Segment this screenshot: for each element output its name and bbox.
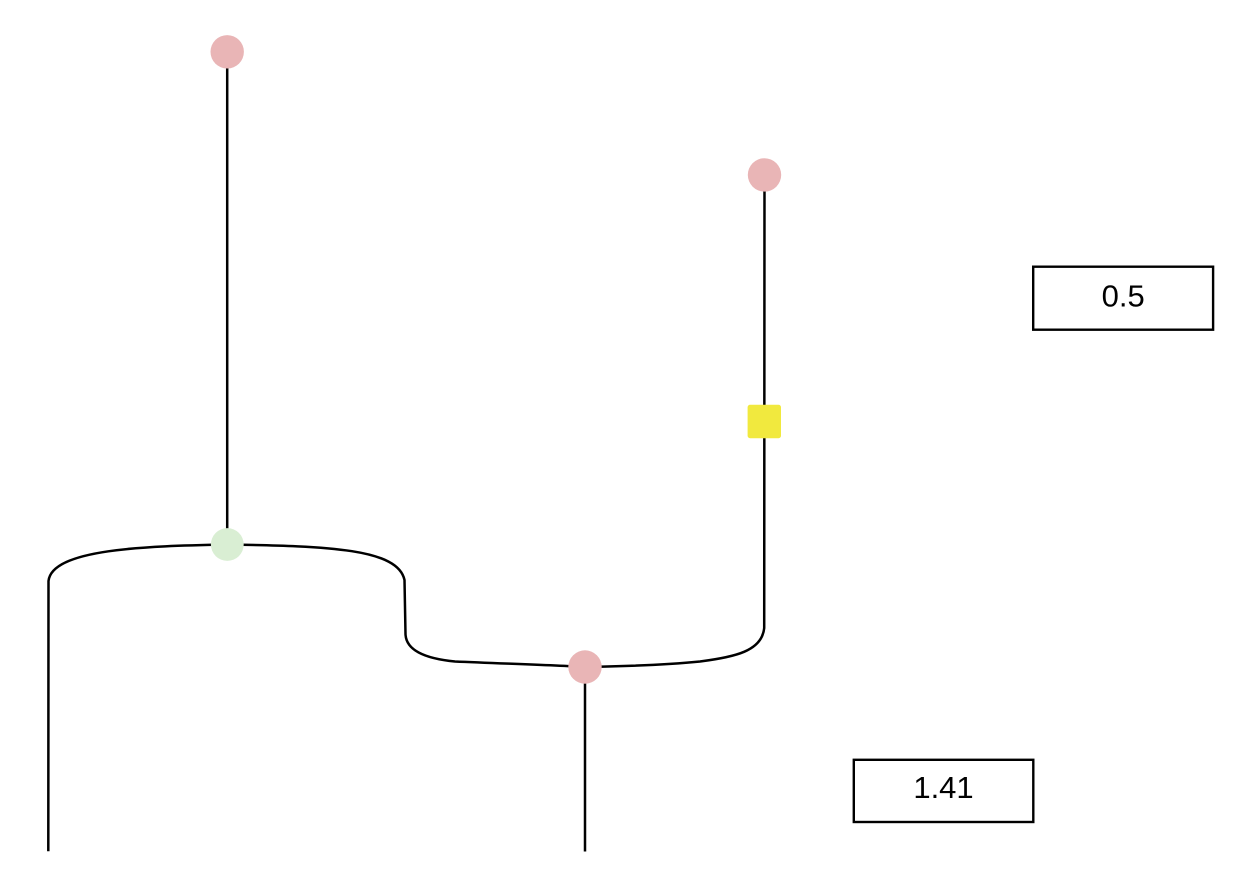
X spider s2 (red dot, middle) [568,650,601,683]
Hadamard box H (yellow square) [748,405,781,438]
X spider b0 (red dot, top left) [211,35,244,68]
X spider b1 (red dot, upper right) [748,158,781,191]
svg-text:1.41: 1.41 [913,770,973,805]
wire from Z spider s1 to X spider s2 (s-bend) [227,545,585,668]
scalar box 0.5 [1033,267,1213,330]
wire from X spider s2 up to X spider b1 (through Hadamard) [585,175,765,667]
wire from Z spider s1 to left output (cap left leg) [48,545,227,852]
svg-text:0.5: 0.5 [1102,279,1145,314]
scalar box 1.41 [854,760,1034,822]
wire from X spider s2 down to bottom output [584,667,587,852]
Z spider s1 (green dot, middle left) [211,528,244,561]
wire from X spider b0 down to Z spider s1 [226,52,229,545]
